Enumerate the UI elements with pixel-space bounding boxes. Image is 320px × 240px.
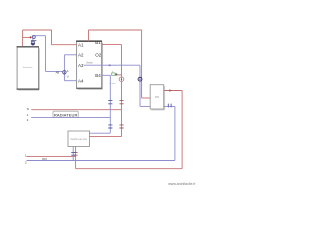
svg-text:A1: A1 [78, 42, 84, 47]
left box bottom edge [17, 88, 39, 90]
svg-text:chauffe-eau elec: chauffe-eau elec [70, 139, 88, 141]
junction dot red at plug [30, 36, 32, 38]
svg-text:RADIATEUR: RADIATEUR [54, 112, 78, 117]
wire red radiateur [31, 109, 121, 111]
wire purple A3 through [84, 64, 140, 66]
wire purple right drop [174, 106, 176, 160]
wire red bottom-left [27, 156, 76, 158]
wire red right drop to relay [141, 30, 143, 98]
conductor marks red B1 drop upper [74, 100, 124, 155]
RADIATEUR label box [53, 111, 78, 117]
wire purple bottom long [27, 160, 175, 162]
left box top edge [17, 46, 39, 48]
svg-text:AB: AB [56, 70, 60, 74]
conductor marks purple B4 drop lower [108, 125, 112, 128]
svg-text:Switch: Switch [86, 62, 93, 65]
wire purple B4 out [102, 74, 111, 76]
wire purple to junction [46, 70, 63, 72]
wire red top-right horizontal [89, 29, 142, 31]
wire red into chauffe-eau [90, 136, 122, 138]
conductor marks red B1 drop lower [119, 125, 123, 128]
wire red B1 drop [121, 45, 123, 137]
plug symbol bar [31, 40, 36, 42]
conductor marks purple chauffe drop [71, 153, 75, 156]
left box (thermostat) shadow [18, 48, 39, 90]
wire purple A2 [64, 54, 76, 56]
central box U1 shadow [78, 43, 103, 90]
wire purple drop left [45, 36, 47, 72]
svg-text:O2: O2 [95, 53, 102, 58]
plug symbol semicircle [31, 43, 35, 45]
wire end labels radiateur left [27, 107, 29, 122]
arrow red after KDS [169, 89, 172, 91]
lamp circle on red drop [119, 77, 124, 82]
wire purple into KDS [140, 105, 150, 107]
svg-text:U: U [67, 75, 69, 79]
wire red top pin vertical [88, 30, 90, 41]
KDS box [150, 85, 164, 109]
conductor marks red chauffe drop [74, 153, 78, 156]
svg-text:thermostat: thermostat [23, 66, 33, 69]
wire red stub from contact [117, 74, 121, 76]
conductor marks purple B4 drop upper [71, 100, 171, 155]
wire red chauffe-eau bottom drop [75, 147, 77, 169]
wire red top-left horizontal [23, 29, 52, 31]
svg-text:B1: B1 [95, 40, 101, 45]
wire red drop to A1 line [51, 30, 53, 45]
wire purple A3 drop [139, 65, 141, 106]
wire purple plug top out [34, 35, 46, 37]
wire purple junction vertical A2-A4 [63, 55, 65, 81]
svg-text:A2: A2 [78, 53, 84, 58]
wire purple KDS out [164, 105, 175, 107]
wire red B1 out [102, 44, 122, 46]
arrow purple on A3 wire [108, 64, 111, 66]
central box top edge [76, 40, 102, 42]
wire red A1 [52, 44, 77, 46]
contact component (green) [112, 73, 116, 76]
wire red right edge drop [181, 91, 183, 169]
KDS box shadow [151, 86, 164, 110]
svg-text:A3: A3 [78, 63, 84, 68]
wire purple chauffe-eau bottom drop [72, 147, 74, 161]
svg-text:B4: B4 [95, 73, 101, 78]
svg-text:A: A [67, 69, 69, 73]
svg-text:806: 806 [155, 96, 160, 99]
svg-text:N: N [27, 107, 29, 111]
junction circle on purple A3 drop [138, 77, 142, 81]
wire red plug feed vertical [22, 30, 24, 46]
plug symbol circle [32, 36, 35, 39]
conductor marks purple after KDS [168, 104, 171, 108]
wire red to plug [23, 36, 31, 38]
wire purple B4 drop [109, 75, 111, 133]
wire purple A4 [64, 80, 76, 82]
central box bottom edge [76, 87, 102, 89]
svg-text:905: 905 [42, 157, 47, 161]
wire red into KDS box [142, 97, 151, 99]
wire purple into chauffe-eau [90, 132, 111, 134]
wire red KDS out [164, 90, 182, 92]
junction terminal circle near A4 [63, 71, 66, 74]
chauffe-eau box [68, 131, 90, 147]
svg-text:www.archifacile.fr: www.archifacile.fr [168, 182, 196, 186]
svg-text:contact: contact [109, 82, 116, 85]
wire end labels bottom left [25, 153, 27, 164]
wire purple radiateur [31, 117, 110, 119]
svg-text:A4: A4 [78, 78, 84, 83]
wire purple plug vertical [32, 36, 34, 47]
wire red bottom long [76, 168, 183, 170]
central box U1 [77, 41, 102, 88]
left box (thermostat) [17, 47, 38, 89]
